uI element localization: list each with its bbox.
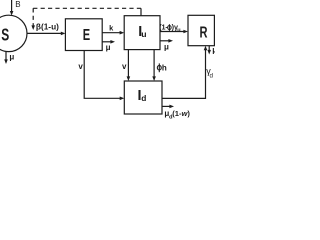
label phi-h on Iu-Id wire [157, 65, 161, 70]
svg-text:μ: μ [212, 46, 215, 55]
svg-text:μ: μ [106, 43, 111, 52]
arrowhead B into S [10, 11, 14, 16]
arrowhead mu below S [4, 59, 8, 64]
svg-text:S: S [1, 25, 9, 45]
arrowhead v into Id left [120, 97, 125, 101]
wire dashed feedback horizontal from Iu top [33, 7, 141, 9]
svg-text:E: E [83, 27, 90, 44]
wire mu exit right of E [102, 41, 111, 43]
svg-text:B: B [15, 0, 20, 9]
wire solid tick from dashed line to Iu top [140, 8, 142, 15]
arrowhead v into Id top [127, 76, 131, 81]
svg-text:μ: μ [164, 42, 169, 51]
arrowhead S to E [61, 32, 66, 36]
arrowhead mu right of Iu [168, 39, 173, 43]
wire mu_d(1-w) exit right of Id [162, 105, 170, 107]
arrowhead mu_d(1-w) right of Id [169, 105, 174, 109]
arrowhead k into Iu [120, 31, 125, 35]
wire phi-h from Iu down to Id [153, 50, 155, 77]
svg-text:v: v [122, 62, 127, 71]
arrowhead phi-h into Id top [152, 76, 156, 81]
wire S to E [27, 32, 62, 34]
svg-text:u: u [177, 27, 180, 33]
node S (susceptible compartment, circle cut off at left edge) [0, 15, 27, 51]
wire gamma_d from Id right and up into R bottom [162, 50, 206, 99]
wire B birth arrow into S [11, 0, 13, 12]
svg-text:β(1-u): β(1-u) [36, 22, 59, 31]
wire mu exit below S [5, 51, 7, 60]
svg-text:d: d [210, 73, 214, 80]
arrowhead mu below R [207, 50, 211, 55]
compartment E (exposed) [65, 19, 102, 51]
arrowhead gamma_d up into R bottom [204, 46, 208, 51]
svg-text:u: u [141, 29, 146, 39]
wire k from E to Iu [102, 32, 120, 34]
arrowhead dashed feedback down [31, 25, 35, 30]
wire mu exit below R [208, 46, 210, 51]
arrowhead gamma_u into R [183, 30, 188, 34]
svg-text:μ: μ [9, 53, 14, 62]
wire v from E down and right into Id [84, 51, 120, 99]
arrowhead mu right of E [110, 40, 115, 44]
svg-text:v: v [78, 62, 83, 71]
wire (1-phi)gamma_u from Iu to R [160, 31, 184, 33]
svg-text:h: h [162, 63, 167, 72]
compartment Id (detected infectious) [124, 81, 162, 114]
svg-text:d: d [141, 93, 146, 103]
wire mu exit right of Iu [160, 40, 169, 42]
compartment R (recovered) [188, 15, 214, 45]
compartment Iu (undetected infectious) [124, 16, 160, 50]
svg-text:(1-w): (1-w) [172, 109, 190, 118]
wire v from Iu down to Id [127, 50, 129, 77]
wire dashed feedback vertical down to beta arrow [32, 8, 34, 25]
svg-text:(1-: (1- [159, 22, 168, 31]
svg-text:R: R [200, 25, 208, 42]
